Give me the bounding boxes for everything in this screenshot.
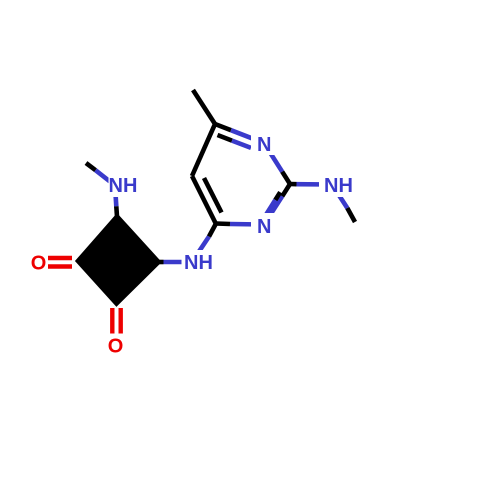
svg-text:NH: NH <box>324 175 353 197</box>
bond NH(A)-CH3 methyl A <box>96 170 116 185</box>
label masks <box>24 131 356 357</box>
svg-text:O: O <box>108 336 124 358</box>
bond C2-NH(B) <box>290 182 297 187</box>
svg-text:NH: NH <box>109 175 138 197</box>
bond C6-CH3 methyl ring <box>193 90 215 124</box>
carbonyl C2'=O left <box>48 258 72 267</box>
carbonyl C1'=O bottom <box>112 308 120 334</box>
bond N3-C4 <box>230 222 264 227</box>
bond NH(C)-C4 pyrimidine <box>192 237 209 263</box>
bond NH(B)-CH3 methyl B <box>332 185 347 209</box>
bond C2=N3 double <box>282 184 290 196</box>
bond C4-C5 double <box>192 90 222 224</box>
bond C4'-NH(C) horizontal <box>159 260 164 265</box>
svg-text:O: O <box>31 253 47 275</box>
svg-text:NH: NH <box>184 252 213 274</box>
svg-text:N: N <box>257 134 271 156</box>
svg-text:N: N <box>257 216 271 238</box>
bond C3'-NH(A) vertical <box>115 186 116 207</box>
squaramide ring (cyclobutenedione, filled solid) <box>78 217 159 304</box>
bond N1-C2 <box>264 143 282 172</box>
bond C6=N1 double <box>215 124 231 130</box>
bond C5-C6 <box>192 124 215 176</box>
